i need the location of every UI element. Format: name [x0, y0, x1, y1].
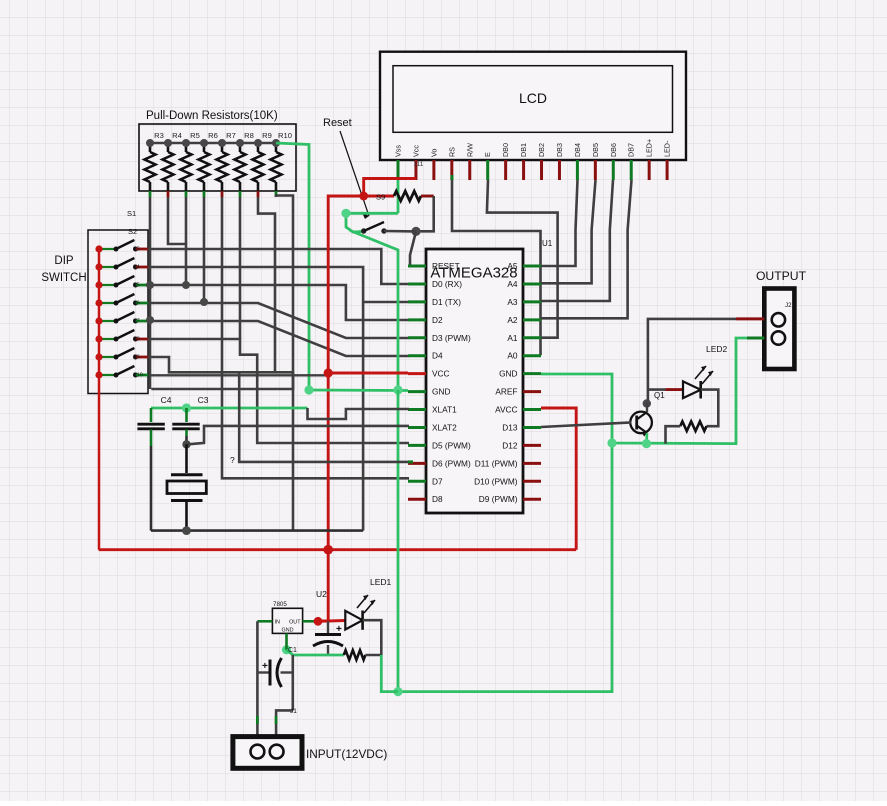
wire green gnd jog — [287, 650, 294, 655]
svg-text:S10: S10 — [133, 373, 143, 379]
svg-text:D11 (PWM): D11 (PWM) — [475, 458, 518, 468]
junction green GND-1 — [304, 385, 313, 394]
svg-text:S1: S1 — [127, 209, 136, 218]
junction crystal bottom — [182, 526, 191, 535]
wire J2 pin2 green stub — [747, 337, 764, 340]
junction red trunk row 1 — [95, 245, 102, 252]
svg-text:A0: A0 — [507, 351, 518, 361]
wire reset junction to RESET pin — [410, 231, 426, 266]
svg-text:C3: C3 — [198, 395, 209, 405]
wire LED2 cathode to resistor — [701, 390, 719, 427]
pin D10 (PWM) right stub — [523, 480, 541, 483]
svg-text:OUT: OUT — [289, 620, 301, 626]
wire D13 to Q1 base — [541, 422, 631, 427]
LCD screen inner rect — [393, 66, 673, 133]
junction rail red — [323, 545, 333, 555]
svg-text:Q1: Q1 — [654, 391, 665, 400]
svg-text:R6: R6 — [208, 131, 218, 140]
switch S4 pole — [99, 266, 116, 268]
wire IN net down to J1 pin1 — [256, 621, 259, 745]
junction red trunk row 5 — [95, 317, 102, 324]
svg-text:DB3: DB3 — [555, 143, 564, 157]
svg-text:DB4: DB4 — [573, 143, 582, 157]
svg-text:R/W: R/W — [465, 143, 474, 157]
red supply trunk wire — [98, 249, 101, 550]
svg-text:Vss: Vss — [394, 145, 403, 157]
svg-text:D2: D2 — [432, 315, 443, 325]
junction VCC red — [324, 368, 333, 377]
wire C1 right vertical — [291, 655, 294, 710]
svg-text:R5: R5 — [190, 131, 200, 140]
junction red trunk row 2 — [95, 263, 102, 270]
LCD module outline — [380, 52, 686, 160]
svg-text:111: 111 — [414, 161, 424, 168]
svg-text:E: E — [483, 152, 492, 157]
pin D1 (TX) left stub — [408, 300, 426, 303]
resistor lead stub — [149, 191, 152, 197]
junction C3 bottom — [182, 440, 190, 448]
svg-text:DB0: DB0 — [501, 143, 510, 157]
capacitor C3 — [185, 408, 188, 422]
junction green bottom — [393, 687, 402, 696]
svg-text:S2: S2 — [128, 227, 137, 236]
switch S6 pole — [99, 302, 116, 304]
resistor lead stub — [275, 191, 278, 197]
wire green GND row left — [309, 389, 408, 392]
svg-text:D9 (PWM): D9 (PWM) — [479, 494, 518, 504]
wire R6 lead down — [203, 197, 206, 302]
svg-text:D8: D8 — [432, 494, 443, 504]
svg-text:GND: GND — [432, 387, 450, 397]
svg-text:S7: S7 — [133, 319, 140, 325]
wire RS to A0 — [452, 180, 541, 355]
DIP switch box S2 — [88, 230, 148, 394]
resistor R-LED2 — [680, 421, 706, 431]
svg-text:A2: A2 — [507, 315, 518, 325]
IC U1 ATMEGA328 body — [426, 249, 523, 513]
wire LCD Vcc red to reset node — [364, 179, 416, 197]
wire R9 lead jog down — [258, 197, 275, 372]
pin XLAT1 left stub — [408, 408, 426, 411]
svg-text:D13: D13 — [502, 422, 518, 432]
svg-text:?: ? — [230, 455, 235, 465]
LED1 diode — [345, 611, 362, 630]
resistor lead stub — [239, 191, 242, 197]
svg-text:Vo: Vo — [429, 149, 438, 157]
svg-text:J1: J1 — [290, 708, 297, 715]
svg-text:C1: C1 — [288, 647, 297, 654]
pin AREF right stub — [523, 390, 541, 393]
junction red trunk row 3 — [95, 281, 102, 288]
svg-text:XLAT1: XLAT1 — [432, 405, 457, 415]
wire LED1 cathode loop — [363, 620, 382, 655]
wire DB6 to A3 — [541, 180, 614, 301]
switch S3 pole — [99, 248, 116, 250]
svg-text:D6 (PWM): D6 (PWM) — [432, 458, 471, 468]
wire OUT pin stub — [303, 620, 318, 623]
svg-text:AREF: AREF — [495, 387, 517, 397]
svg-text:S6: S6 — [133, 301, 140, 307]
pin A2 right stub — [523, 318, 541, 321]
wire R10 lead jog down — [276, 196, 293, 531]
svg-text:S3: S3 — [133, 247, 140, 253]
wire green Vss to reset switch — [346, 213, 398, 232]
pin D2 left stub — [408, 318, 426, 321]
svg-text:OUTPUT: OUTPUT — [756, 269, 807, 283]
svg-text:D12: D12 — [502, 440, 518, 450]
wire resistor to green — [666, 426, 681, 443]
svg-text:XLAT2: XLAT2 — [432, 422, 457, 432]
connector J2 — [764, 289, 794, 370]
svg-text:U1: U1 — [542, 239, 553, 248]
resistor lead stub — [257, 191, 260, 197]
switch S7 pole — [99, 320, 116, 322]
junction red trunk row 8 — [95, 371, 102, 378]
junction green C3 top — [182, 403, 191, 412]
wire green LED1 resistor to GND — [381, 655, 398, 692]
wire green from resistor bus to GND net — [276, 143, 309, 390]
wire switch row4 to D3 with diagonal — [148, 303, 409, 338]
svg-text:R7: R7 — [226, 131, 236, 140]
LED2 diode — [648, 388, 666, 391]
wire switch row5 to D4 with diagonal — [148, 321, 409, 356]
svg-text:A1: A1 — [507, 333, 518, 343]
resistor lead stub — [185, 191, 188, 197]
switch S8 pole — [99, 338, 116, 340]
wire J1 pin2 up — [276, 710, 293, 745]
wire green GND down the middle — [398, 390, 612, 692]
pin XLAT2 left stub — [408, 426, 426, 429]
pin D13 right stub — [523, 426, 541, 429]
wire J2 pin1 red stub — [736, 317, 764, 320]
svg-text:LED1: LED1 — [370, 577, 392, 587]
wire R7 lead down to D7 — [222, 197, 409, 478]
svg-text:A4: A4 — [507, 279, 518, 289]
svg-text:DB6: DB6 — [609, 143, 618, 157]
wire GND pin of regulator — [285, 633, 288, 649]
wire green diagonal to GND net — [350, 231, 398, 390]
svg-text:GND: GND — [282, 628, 294, 634]
pin AVCC right stub — [523, 408, 541, 411]
junction green reset — [341, 209, 350, 218]
pin GND right stub — [523, 372, 541, 375]
svg-text:S4: S4 — [133, 265, 140, 271]
LED1 arrows — [357, 595, 368, 608]
wire red VCC row to chip — [328, 372, 408, 375]
svg-text:D3 (PWM): D3 (PWM) — [432, 333, 471, 343]
wire red VCC down to rail — [327, 373, 330, 550]
svg-text:U2: U2 — [316, 589, 327, 599]
svg-text:LED+: LED+ — [645, 139, 654, 157]
junction row3-R3 — [146, 281, 154, 289]
wire collector to J2 pin1 — [648, 319, 736, 403]
pin D9 (PWM) right stub — [523, 498, 541, 501]
junction green GND-2 — [393, 385, 402, 394]
wire E to A1 — [487, 180, 558, 338]
pin A1 right stub — [523, 336, 541, 339]
svg-text:IN: IN — [275, 620, 280, 626]
junction regulator output red — [314, 617, 323, 626]
svg-text:R8: R8 — [244, 131, 254, 140]
pin A0 right stub — [523, 354, 541, 357]
svg-text:AVCC: AVCC — [495, 405, 517, 415]
crystal Y1 — [185, 444, 188, 473]
junction green Q1 emitter — [642, 439, 651, 448]
svg-text:D10 (PWM): D10 (PWM) — [474, 476, 518, 486]
svg-text:DB5: DB5 — [591, 143, 600, 157]
svg-text:D5 (PWM): D5 (PWM) — [432, 440, 471, 450]
resistor lead stub — [203, 191, 206, 197]
pin D6 (PWM) left stub — [408, 462, 426, 465]
svg-text:LCD: LCD — [519, 90, 547, 106]
wire switch row1 to D0 — [148, 249, 409, 284]
svg-text:DB2: DB2 — [537, 143, 546, 157]
wire red out to LED1 — [318, 619, 345, 623]
pin A3 right stub — [523, 300, 541, 303]
svg-text:R10: R10 — [278, 131, 292, 140]
wire IN pin stub — [257, 620, 272, 623]
svg-text:D7: D7 — [432, 476, 443, 486]
wire red reset node to VCC rail corner — [328, 196, 364, 373]
pin D8 left stub — [408, 498, 426, 501]
svg-text:SWITCH: SWITCH — [41, 272, 86, 284]
wire DB5 to A4 — [541, 180, 596, 283]
wire switch row2 to D1 — [148, 267, 363, 531]
capacitor C4 — [150, 408, 153, 422]
svg-text:S9: S9 — [133, 355, 140, 361]
svg-text:R3: R3 — [154, 131, 164, 140]
svg-text:VCC: VCC — [432, 369, 450, 379]
pin D7 left stub — [408, 480, 426, 483]
crystal bottom bus wire — [151, 529, 363, 532]
svg-text:S5: S5 — [133, 283, 140, 289]
switch S9 pole — [99, 356, 116, 358]
svg-text:S8: S8 — [133, 337, 140, 343]
svg-text:+: + — [262, 661, 268, 672]
junction red trunk row 6 — [95, 335, 102, 342]
pin RESET left stub — [408, 265, 426, 268]
pin D11 (PWM) right stub — [523, 462, 541, 465]
svg-text:R4: R4 — [172, 131, 182, 140]
LED2 arrows — [695, 366, 706, 379]
resistor top bus wire — [150, 142, 276, 145]
svg-text:C4: C4 — [161, 395, 172, 405]
wire R5 lead — [185, 197, 188, 244]
wire AVCC red — [541, 408, 576, 550]
junction row5-R3 — [146, 316, 154, 324]
svg-text:LED-: LED- — [663, 140, 672, 157]
svg-text:D4: D4 — [432, 351, 443, 361]
pin D12 right stub — [523, 444, 541, 447]
pin A4 right stub — [523, 282, 541, 285]
connector J1 INPUT — [233, 737, 302, 769]
wire switch row3 to D2 — [148, 285, 409, 320]
svg-text:INPUT(12VDC): INPUT(12VDC) — [306, 747, 387, 761]
junction reset gray node — [411, 227, 420, 236]
wire switch row6 staircase to D5 — [148, 339, 409, 443]
svg-text:Pull-Down Resistors(10K): Pull-Down Resistors(10K) — [146, 110, 278, 122]
pin D3 (PWM) left stub — [408, 336, 426, 339]
pin GND left stub — [408, 390, 426, 393]
svg-text:A3: A3 — [507, 297, 518, 307]
RS stub green tip — [451, 175, 454, 180]
svg-text:S9: S9 — [376, 193, 385, 202]
junction row4-R6 — [200, 298, 208, 306]
junction green transistor row — [607, 438, 616, 447]
reset callout arrow — [340, 131, 369, 216]
svg-text:DB1: DB1 — [519, 143, 528, 157]
junction row3-R4 — [182, 281, 190, 289]
junction red trunk row 7 — [95, 353, 102, 360]
svg-text:D1 (TX): D1 (TX) — [432, 297, 461, 307]
reset switch S9 contacts — [361, 228, 366, 233]
wire red rail down to regulator output — [318, 550, 328, 621]
pin VCC left stub — [408, 372, 426, 375]
svg-text:DB7: DB7 — [627, 143, 636, 157]
wire XLAT2 branch — [363, 425, 409, 428]
svg-text:J2: J2 — [785, 302, 792, 309]
wire R4 lead jog — [168, 197, 186, 285]
resistor lead stub — [167, 191, 170, 197]
wire R3 lead down — [149, 197, 152, 389]
junction green C1 node — [282, 645, 291, 654]
svg-text:D0 (RX): D0 (RX) — [432, 279, 462, 289]
wire XLAT1 jog to chip — [308, 408, 410, 419]
switch S5 pole — [99, 284, 116, 286]
wire to D6 from row7 line — [239, 372, 409, 462]
svg-text:A5: A5 — [507, 261, 518, 271]
switch S10 pole — [99, 374, 116, 376]
wire green XLAT1 caps row — [151, 407, 308, 410]
svg-text:RESET: RESET — [432, 261, 460, 271]
pin D0 (RX) left stub — [408, 282, 426, 285]
wire C4 bottom down — [150, 446, 153, 531]
pull-down resistor bank box — [139, 124, 296, 191]
wire switch row7 jog — [148, 357, 293, 389]
wire DB4 to A5 — [541, 180, 578, 266]
pin D5 (PWM) left stub — [408, 444, 426, 447]
svg-text:7805: 7805 — [273, 601, 287, 608]
svg-text:LED2: LED2 — [706, 344, 728, 354]
junction reset node red — [359, 192, 368, 201]
wire green GND right side — [541, 338, 747, 444]
junction red trunk row 4 — [95, 299, 102, 306]
wire LCD Vss green down — [397, 180, 400, 213]
wire D1 branch — [363, 301, 409, 304]
wire R8 lead down — [239, 197, 242, 339]
red bottom rail — [99, 548, 577, 551]
svg-text:RS: RS — [447, 147, 456, 157]
svg-text:Reset: Reset — [323, 117, 352, 129]
wire DB7 to A2 — [541, 180, 632, 318]
svg-text:DIP: DIP — [54, 255, 74, 267]
resistor R-LED1 — [293, 654, 344, 657]
wire C3 bottom to XLAT2 route — [187, 426, 364, 445]
wire switch row8 to VCC node — [149, 374, 328, 376]
pin A5 right stub — [523, 265, 541, 268]
svg-text:Vcc: Vcc — [411, 145, 420, 157]
svg-text:R9: R9 — [262, 131, 272, 140]
svg-text:GND: GND — [499, 369, 517, 379]
wire S9 to reset junction — [416, 196, 434, 231]
pin D4 left stub — [408, 354, 426, 357]
resistor S9 body — [364, 195, 394, 198]
resistor lead stub — [221, 191, 224, 197]
